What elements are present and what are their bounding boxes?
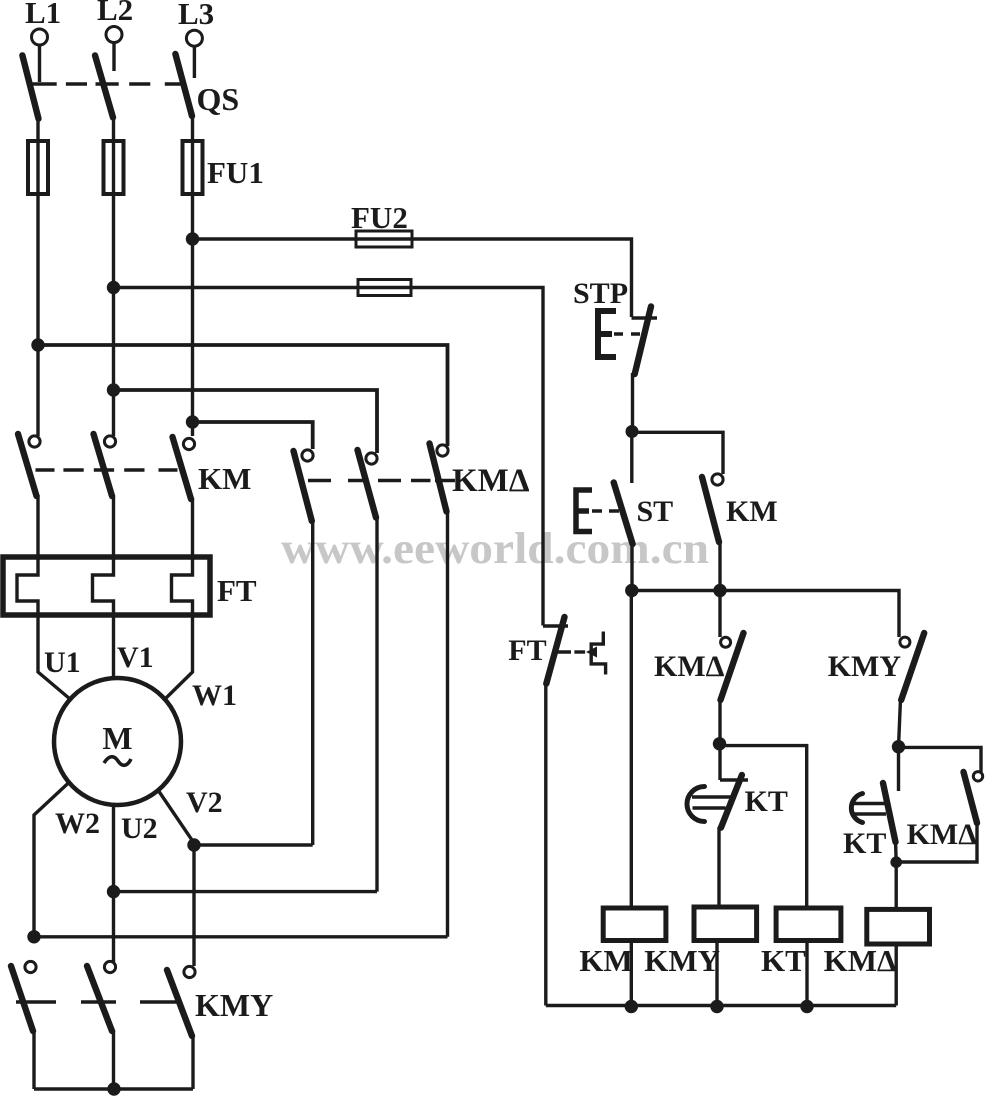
FT heater element 2	[93, 557, 114, 615]
node bottom KMY	[710, 1000, 723, 1013]
wire FT to motor W1	[165, 615, 193, 699]
bottom rail	[546, 1004, 896, 1007]
node bottom KM	[625, 1000, 638, 1013]
svg-text:KMΔ: KMΔ	[452, 463, 530, 499]
contactor KM pole 3	[173, 437, 195, 560]
svg-text:V1: V1	[117, 641, 154, 674]
wire L2 branch to KM-delta pole 2	[114, 390, 378, 453]
svg-text:W2: W2	[55, 807, 100, 840]
fuse FU1 pole 1	[28, 141, 48, 196]
terminal L1	[25, 0, 61, 82]
wire L1 main vertical	[36, 194, 39, 436]
node control B	[625, 584, 638, 597]
left rail	[544, 683, 547, 1006]
wire L3 branch to KM-delta pole 1	[193, 422, 313, 449]
contactor KMY pole 2	[87, 961, 116, 1089]
terminal L3	[178, 0, 214, 78]
svg-text:U1: U1	[44, 646, 81, 679]
KM-delta dashed link	[308, 479, 455, 482]
wire node A to KM aux	[632, 432, 723, 474]
wire L2 to fuse FU2b	[114, 286, 412, 289]
contactor KM pole 1	[18, 434, 40, 560]
svg-text:KMΔ: KMΔ	[654, 650, 725, 683]
svg-text:KMY: KMY	[195, 987, 273, 1023]
node control E	[892, 740, 905, 753]
svg-text:FU1: FU1	[207, 155, 264, 190]
node L1 branch	[31, 338, 44, 351]
FT heater element 1	[17, 557, 38, 615]
contactor KMY pole 3	[167, 966, 195, 1089]
motor tilde	[104, 757, 131, 766]
svg-text:M: M	[102, 720, 132, 756]
KM dashed link	[36, 468, 178, 471]
contact KMY NC interlock	[899, 633, 925, 747]
coil KM	[603, 591, 666, 1006]
wire motor W2	[34, 783, 69, 938]
fuse FU2a	[356, 231, 412, 247]
wire V2 row	[194, 843, 313, 846]
svg-text:U2: U2	[121, 812, 158, 845]
svg-text:ST: ST	[637, 495, 674, 528]
KMY dashed link	[16, 1000, 177, 1003]
knife switch QS pole 3	[175, 54, 192, 142]
svg-text:L1: L1	[25, 0, 61, 30]
svg-text:W1: W1	[192, 679, 237, 712]
wire L2 main vertical	[112, 194, 115, 436]
fuse FU1 pole 2	[104, 141, 124, 196]
fuse FU1 pole 3	[183, 141, 203, 196]
knife switch QS pole 2	[95, 55, 114, 142]
coil KM-delta	[867, 909, 930, 1005]
contactor KM-delta pole 1	[294, 450, 314, 845]
wire FU2a to STP	[412, 239, 632, 317]
contact KM auxiliary	[702, 474, 723, 591]
svg-text:FU2: FU2	[351, 200, 408, 235]
wire node C to KM-delta interlock	[718, 591, 721, 638]
wire L3 to fuse FU2a	[193, 237, 413, 240]
node control C	[713, 584, 726, 597]
terminal L2	[97, 0, 133, 71]
coil KMY	[694, 907, 757, 1006]
svg-text:L3: L3	[178, 0, 214, 31]
motor M circle	[54, 678, 181, 805]
wire node F to KM-delta coil	[895, 862, 898, 910]
node W2	[27, 930, 40, 943]
node U2	[107, 885, 120, 898]
svg-text:KMY: KMY	[644, 943, 720, 978]
contactor KM pole 2	[94, 434, 116, 560]
svg-text:KT: KT	[761, 943, 806, 978]
node L3-FU2a	[186, 232, 199, 245]
svg-text:STP: STP	[573, 277, 628, 310]
star point bar	[34, 1087, 193, 1090]
contact KM-delta NO auxiliary	[899, 772, 983, 862]
wire motor U2	[112, 805, 115, 962]
contact KM-delta NC interlock	[720, 633, 744, 744]
node control D	[713, 737, 726, 750]
wire W2 row	[34, 935, 448, 938]
wire L3 main vertical	[191, 194, 194, 436]
wire node D to KT coil	[720, 746, 807, 908]
knife switch QS pole 1	[22, 55, 38, 142]
svg-text:FT: FT	[217, 573, 257, 608]
FT heater element 3	[172, 557, 193, 615]
svg-text:KT: KT	[843, 827, 886, 860]
wire motor V2	[158, 790, 194, 966]
svg-text:www.eeworld.com.cn: www.eeworld.com.cn	[281, 524, 709, 573]
wire U2 row	[114, 890, 378, 893]
QS dashed link	[28, 82, 186, 85]
thermal overload FT heater box	[3, 557, 210, 615]
timed contact KT delayed-closing	[687, 744, 748, 907]
node L2 branch	[107, 383, 120, 396]
node bottom KT	[800, 1000, 813, 1013]
contactor KM-delta pole 3	[430, 444, 449, 937]
node L2-FU2b	[107, 281, 120, 294]
svg-text:KM: KM	[198, 461, 251, 496]
contactor KM-delta pole 2	[358, 450, 378, 892]
wire L1 branch to KM-delta pole 3	[38, 345, 448, 446]
pushbutton ST	[576, 432, 633, 591]
svg-text:V2: V2	[186, 786, 223, 819]
pushbutton STP	[598, 307, 657, 432]
node V2	[187, 838, 200, 851]
thermal contact FT control	[543, 617, 606, 684]
node L3 branch	[186, 415, 199, 428]
wire FT to motor U1	[38, 615, 70, 699]
svg-text:KT: KT	[745, 785, 788, 818]
svg-text:KMΔ: KMΔ	[824, 943, 897, 978]
coil KT	[776, 908, 841, 1006]
svg-text:KMY: KMY	[828, 650, 902, 683]
wire junction row to KMY interlock	[632, 591, 899, 638]
wire FT to motor V1	[112, 615, 115, 678]
svg-text:KM: KM	[726, 495, 778, 528]
node control F	[890, 856, 902, 868]
svg-text:KM: KM	[579, 943, 632, 978]
wire node E to KM-delta aux	[899, 747, 982, 772]
svg-text:FT: FT	[508, 634, 546, 667]
fuse FU2b	[358, 280, 411, 296]
node star point	[107, 1082, 120, 1095]
node control A	[626, 425, 639, 438]
svg-text:QS: QS	[197, 81, 240, 117]
timed contact KT delayed-opening	[851, 747, 898, 862]
contactor KMY pole 1	[11, 961, 36, 1089]
wire FU2b to left rail	[411, 288, 543, 626]
svg-text:KMΔ: KMΔ	[907, 818, 978, 851]
svg-text:L2: L2	[97, 0, 133, 27]
